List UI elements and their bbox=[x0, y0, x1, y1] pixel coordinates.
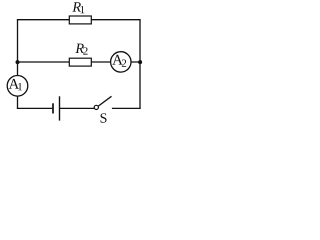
battery cell long plate bbox=[59, 96, 61, 120]
label A1 subscript 1 bbox=[18, 83, 22, 90]
label A2 subscript 2 bbox=[122, 60, 126, 67]
wire bottom middle segment bbox=[60, 107, 94, 109]
label R1 letter R bbox=[72, 2, 81, 11]
node junction left bbox=[16, 60, 20, 64]
node junction right bbox=[138, 60, 142, 64]
wire right vertical bbox=[139, 19, 141, 109]
wire bottom right segment bbox=[112, 107, 141, 109]
battery cell short plate bbox=[52, 103, 54, 113]
resistor R2 bbox=[69, 58, 91, 66]
wire bottom left segment bbox=[17, 107, 53, 109]
label S bbox=[101, 113, 107, 122]
switch S blade bbox=[98, 96, 111, 106]
wire top horizontal bbox=[17, 19, 141, 21]
label A2 letter A bbox=[112, 55, 123, 65]
wire left vertical lower bbox=[17, 96, 19, 109]
resistor R1 bbox=[69, 16, 91, 24]
wire left vertical upper bbox=[17, 19, 19, 76]
label R1 subscript 1 bbox=[81, 6, 85, 13]
label A1 letter A bbox=[9, 79, 20, 89]
ammeter A1 bbox=[7, 76, 28, 97]
ammeter A2 bbox=[111, 52, 131, 72]
wire middle branch horizontal bbox=[17, 61, 140, 63]
label R2 letter R bbox=[75, 44, 84, 53]
label R2 subscript 2 bbox=[83, 47, 87, 54]
switch S pivot bbox=[94, 105, 98, 109]
